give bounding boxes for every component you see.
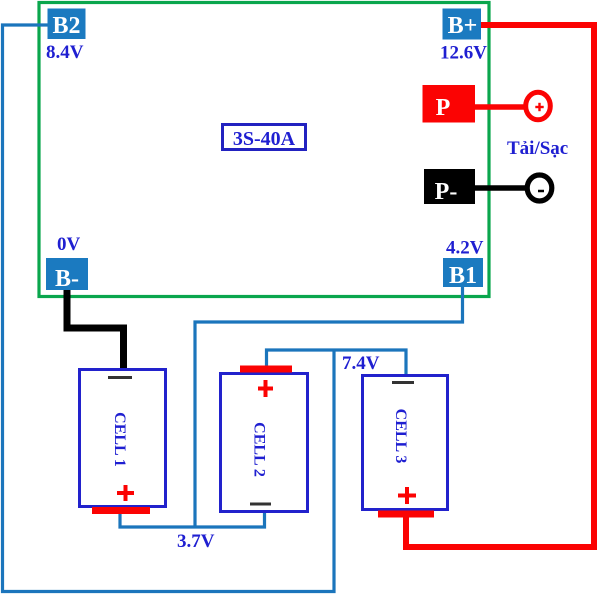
svg-text:P-: P- [435,179,458,205]
svg-text:B1: B1 [449,263,477,289]
svg-text:8.4V: 8.4V [46,42,84,63]
svg-text:Tải/Sạc: Tải/Sạc [507,138,568,159]
svg-text:7.4V: 7.4V [342,353,380,374]
svg-text:P: P [436,95,451,121]
svg-text:CELL 1: CELL 1 [111,412,128,467]
svg-text:3S-40A: 3S-40A [233,128,296,150]
svg-text:B-: B- [55,266,79,292]
svg-text:CELL 3: CELL 3 [392,409,409,464]
svg-text:12.6V: 12.6V [440,43,487,64]
svg-text:B+: B+ [448,13,478,39]
svg-text:CELL 2: CELL 2 [251,422,268,477]
svg-text:0V: 0V [57,234,81,255]
svg-text:4.2V: 4.2V [446,238,484,259]
svg-text:B2: B2 [52,13,80,39]
svg-text:3.7V: 3.7V [177,531,215,552]
